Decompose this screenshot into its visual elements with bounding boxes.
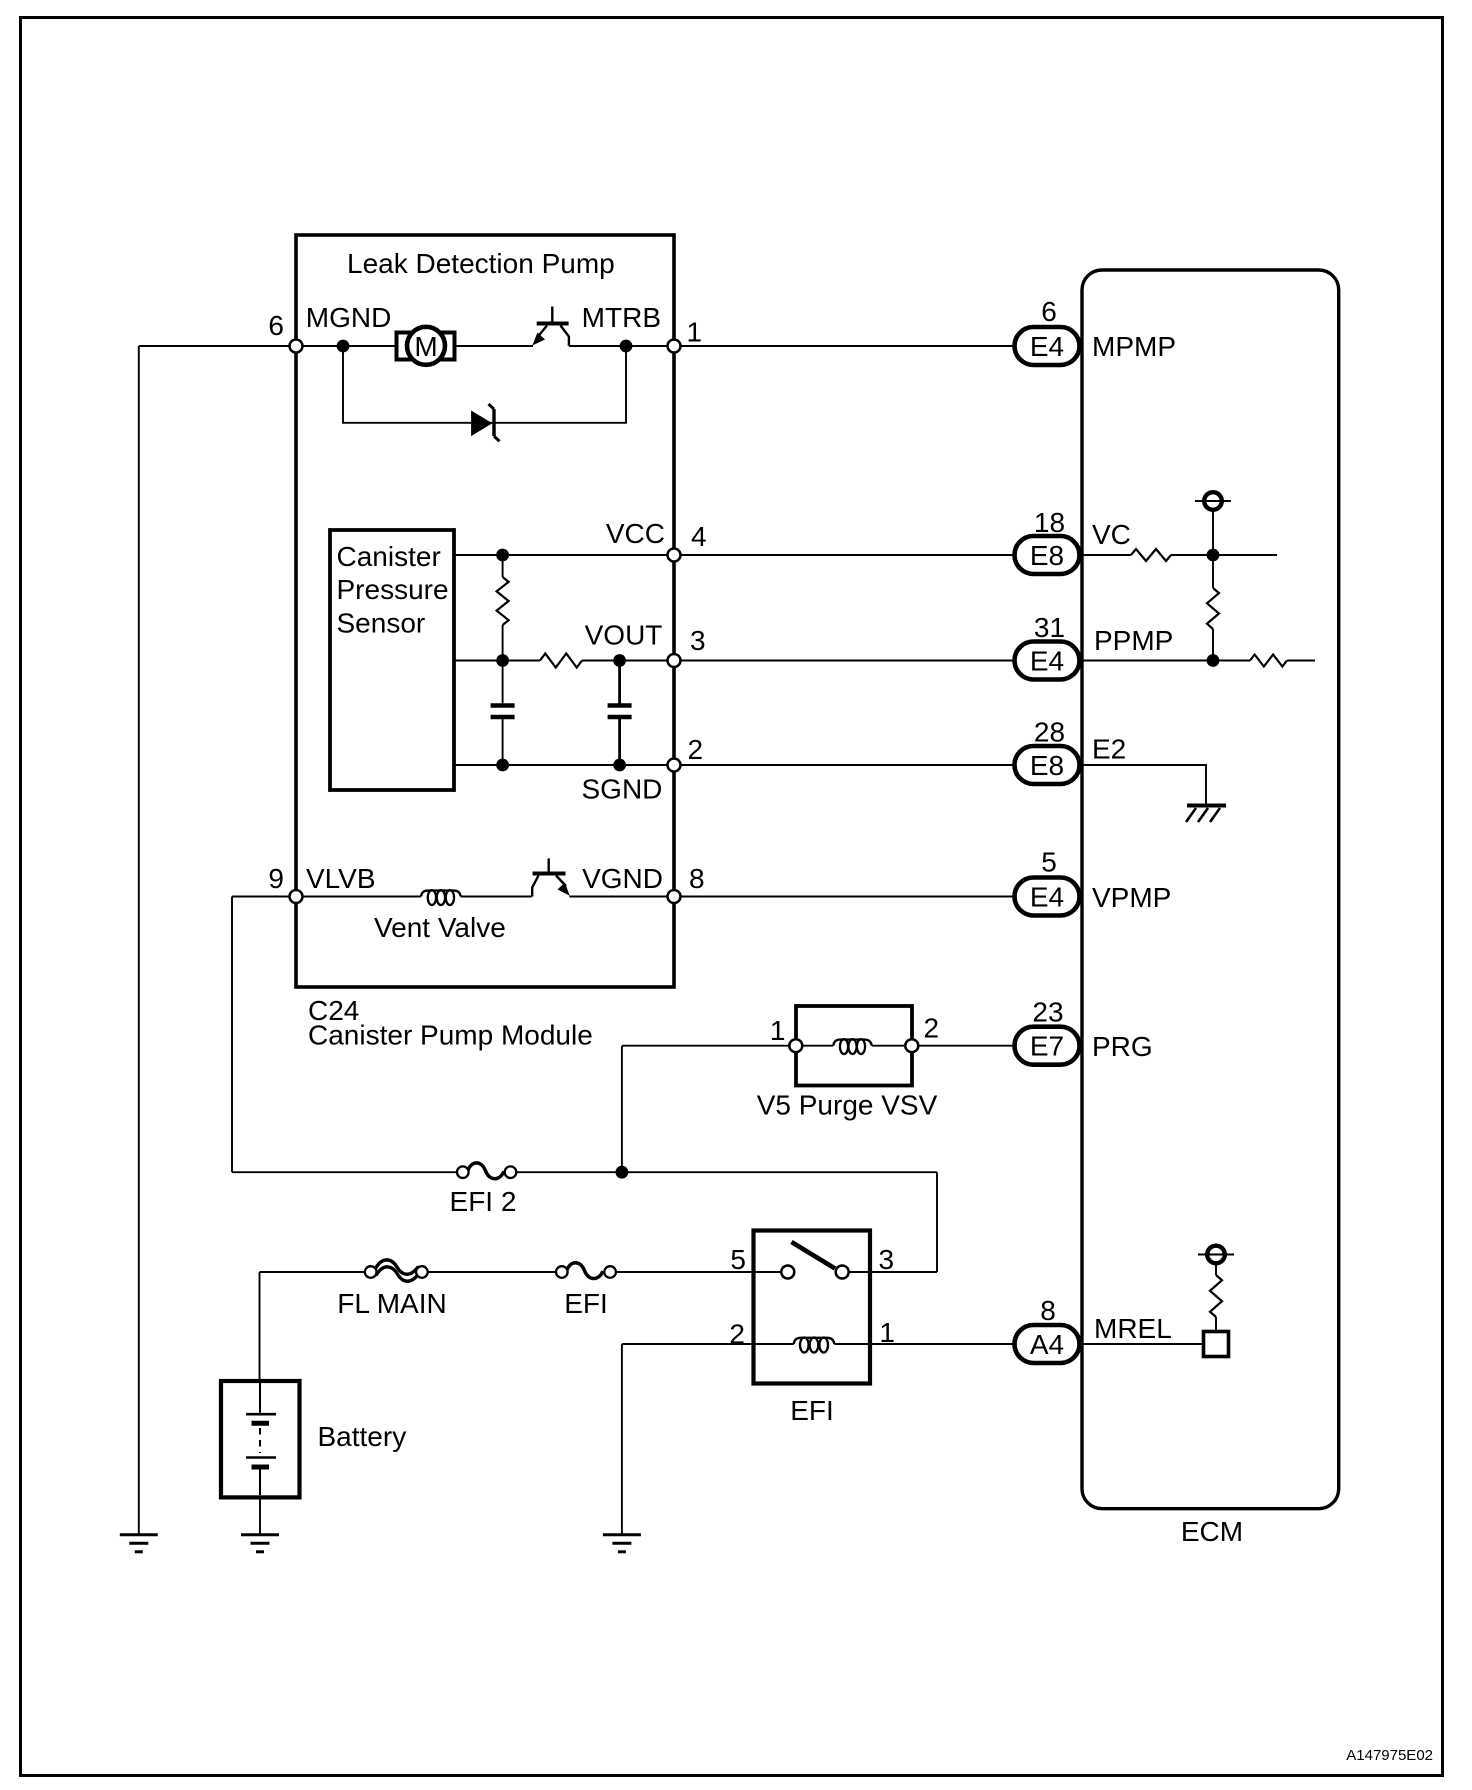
svg-text:Vent Valve: Vent Valve bbox=[374, 912, 506, 943]
svg-text:VLVB: VLVB bbox=[306, 863, 376, 894]
svg-text:MREL: MREL bbox=[1094, 1313, 1172, 1344]
svg-text:8: 8 bbox=[1040, 1295, 1056, 1326]
svg-text:MTRB: MTRB bbox=[582, 302, 661, 333]
svg-text:A147975E02: A147975E02 bbox=[1346, 1747, 1433, 1764]
svg-text:E4: E4 bbox=[1030, 646, 1064, 677]
svg-text:Pressure: Pressure bbox=[337, 574, 449, 605]
svg-text:5: 5 bbox=[730, 1244, 746, 1275]
svg-text:FL MAIN: FL MAIN bbox=[337, 1288, 446, 1319]
svg-text:VOUT: VOUT bbox=[585, 619, 663, 650]
svg-text:9: 9 bbox=[268, 863, 284, 894]
svg-text:PRG: PRG bbox=[1092, 1031, 1153, 1062]
svg-text:E4: E4 bbox=[1030, 882, 1064, 913]
svg-text:31: 31 bbox=[1034, 612, 1065, 643]
svg-text:SGND: SGND bbox=[581, 774, 662, 805]
svg-text:ECM: ECM bbox=[1181, 1516, 1243, 1547]
svg-text:Canister: Canister bbox=[337, 541, 441, 572]
svg-text:MPMP: MPMP bbox=[1092, 331, 1176, 362]
svg-text:E4: E4 bbox=[1030, 331, 1064, 362]
svg-text:Battery: Battery bbox=[318, 1421, 407, 1452]
svg-text:E7: E7 bbox=[1030, 1031, 1064, 1062]
svg-text:28: 28 bbox=[1034, 717, 1065, 748]
svg-text:Canister Pump Module: Canister Pump Module bbox=[308, 1020, 593, 1051]
svg-text:4: 4 bbox=[691, 521, 707, 552]
svg-text:EFI: EFI bbox=[790, 1395, 834, 1426]
svg-text:2: 2 bbox=[729, 1319, 745, 1350]
svg-text:E8: E8 bbox=[1030, 540, 1064, 571]
svg-text:EFI: EFI bbox=[564, 1288, 608, 1319]
svg-text:8: 8 bbox=[689, 863, 705, 894]
svg-text:23: 23 bbox=[1032, 997, 1063, 1028]
svg-text:1: 1 bbox=[879, 1317, 895, 1348]
svg-text:2: 2 bbox=[924, 1013, 940, 1044]
svg-text:A4: A4 bbox=[1030, 1329, 1064, 1360]
svg-text:2: 2 bbox=[688, 734, 704, 765]
svg-text:E8: E8 bbox=[1030, 750, 1064, 781]
svg-text:EFI 2: EFI 2 bbox=[450, 1186, 517, 1217]
svg-text:3: 3 bbox=[879, 1244, 895, 1275]
svg-text:M: M bbox=[414, 331, 437, 362]
svg-text:18: 18 bbox=[1034, 507, 1065, 538]
svg-text:VGND: VGND bbox=[582, 863, 663, 894]
svg-text:3: 3 bbox=[690, 625, 706, 656]
svg-text:1: 1 bbox=[770, 1015, 786, 1046]
svg-text:Leak Detection Pump: Leak Detection Pump bbox=[347, 248, 615, 279]
svg-text:MGND: MGND bbox=[306, 302, 392, 333]
svg-text:6: 6 bbox=[1041, 296, 1057, 327]
svg-text:VC: VC bbox=[1092, 519, 1131, 550]
svg-text:E2: E2 bbox=[1092, 734, 1126, 765]
svg-text:PPMP: PPMP bbox=[1094, 625, 1173, 656]
svg-text:5: 5 bbox=[1041, 846, 1057, 877]
svg-text:1: 1 bbox=[687, 317, 703, 348]
svg-text:V5 Purge VSV: V5 Purge VSV bbox=[757, 1090, 938, 1121]
svg-text:VCC: VCC bbox=[606, 518, 665, 549]
svg-text:VPMP: VPMP bbox=[1092, 882, 1171, 913]
svg-text:Sensor: Sensor bbox=[337, 608, 426, 639]
svg-text:6: 6 bbox=[268, 310, 284, 341]
